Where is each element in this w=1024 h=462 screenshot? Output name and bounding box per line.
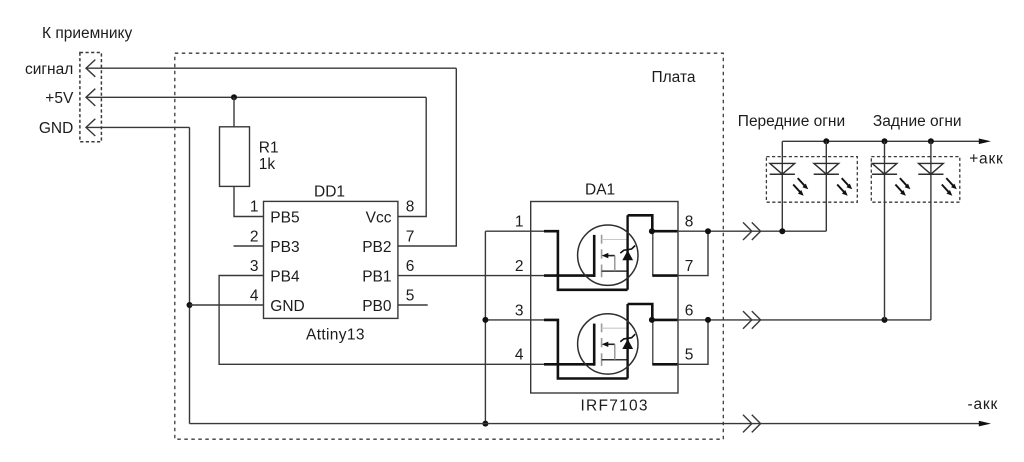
svg-text:PB5: PB5 <box>270 209 299 226</box>
source tap <box>602 270 628 272</box>
junction -акк <box>482 421 488 427</box>
jumper pins 7-8 outside <box>678 231 708 275</box>
connector chevron rear <box>743 311 761 329</box>
wire +5V <box>86 96 426 98</box>
pin arrow +5V <box>86 89 95 106</box>
wire сигнал <box>86 67 456 69</box>
svg-text:PB1: PB1 <box>362 268 391 285</box>
svg-text:5: 5 <box>406 287 415 304</box>
connector chevron front <box>743 222 761 240</box>
svg-text:сигнал: сигнал <box>25 61 73 78</box>
svg-text:3: 3 <box>250 258 259 275</box>
LED HL2 <box>814 163 853 195</box>
svg-text:PB2: PB2 <box>362 239 391 256</box>
front lights dashed box <box>766 157 857 203</box>
IC DD1 box <box>264 201 398 318</box>
wire pin6 to rear lights <box>678 319 931 321</box>
board outline Плата dashed box <box>175 53 724 439</box>
IC DA1 box <box>531 202 678 394</box>
body diode <box>622 250 633 260</box>
body connect <box>614 256 616 272</box>
drain tap <box>602 239 628 241</box>
gate bar <box>593 235 596 277</box>
wire PB0 stub <box>398 304 428 306</box>
svg-text:5: 5 <box>685 347 694 364</box>
light arrow b <box>793 185 800 193</box>
pin arrow GND <box>86 119 95 136</box>
connector X1 dashed box <box>80 53 102 142</box>
svg-text:6: 6 <box>685 302 694 319</box>
wire +акк top line <box>782 140 979 142</box>
transistor M1 (upper half of DA1) <box>544 215 677 289</box>
wire LED3 vertical <box>884 141 886 320</box>
svg-text:8: 8 <box>406 199 415 216</box>
wire +5V to DD1 pin8 Vcc <box>398 97 426 216</box>
svg-text:PB4: PB4 <box>270 268 300 285</box>
svg-text:1: 1 <box>250 199 259 216</box>
junction +5V / R1 <box>231 94 237 100</box>
svg-text:4: 4 <box>250 287 259 304</box>
channel segments <box>601 235 603 277</box>
body arrow <box>607 255 615 257</box>
wire GND to DD1 pin4 <box>190 304 264 306</box>
svg-text:8: 8 <box>685 214 694 231</box>
svg-text:6: 6 <box>406 258 415 275</box>
junction LED4 top <box>928 138 934 144</box>
wire PB1 to DA1 pin2 <box>398 275 546 277</box>
svg-text:DD1: DD1 <box>314 183 345 200</box>
svg-text:GND: GND <box>270 298 304 315</box>
wire LED1 vertical <box>781 141 783 231</box>
LED HL4 <box>918 163 957 195</box>
svg-text:+акк: +акк <box>969 150 1003 167</box>
svg-text:R1: R1 <box>259 139 279 156</box>
svg-text:1: 1 <box>515 214 524 231</box>
svg-text:Передние огни: Передние огни <box>738 113 845 130</box>
wire to DA1 pin1 <box>485 230 546 232</box>
pin7 stub <box>652 274 677 277</box>
source lead pin1 <box>544 231 628 290</box>
svg-text:1k: 1k <box>259 156 276 173</box>
transistor circle <box>578 225 638 285</box>
wire to DA1 pin3 <box>485 319 546 321</box>
gate lead pin2 <box>544 274 594 277</box>
svg-text:3: 3 <box>515 302 524 319</box>
wire -акк bottom line <box>190 423 980 425</box>
svg-text:2: 2 <box>515 258 524 275</box>
arrowhead -акк <box>979 421 991 427</box>
svg-text:PB3: PB3 <box>270 239 299 256</box>
wire PB3 stub <box>234 245 264 247</box>
svg-text:PB0: PB0 <box>362 298 392 315</box>
connector chevron -акк <box>743 415 761 433</box>
svg-text:4: 4 <box>515 347 524 364</box>
diode triangle <box>770 163 795 174</box>
LED HL1 <box>770 163 809 195</box>
drain lead <box>628 215 653 231</box>
svg-text:GND: GND <box>39 120 73 137</box>
pin8 stub <box>652 230 678 233</box>
svg-text:К приемнику: К приемнику <box>42 25 132 42</box>
wire LED2 vertical <box>825 141 827 231</box>
wire GND vertical net <box>189 127 191 423</box>
jumper drain to pin7 <box>652 231 654 275</box>
junction LED1 bottom <box>779 228 785 234</box>
rear lights dashed box <box>871 157 960 203</box>
wire PB4 to DA1 pin4 <box>219 276 546 365</box>
pin arrow сигнал <box>86 60 95 77</box>
svg-text:-акк: -акк <box>968 396 999 413</box>
wire сигнал to DD1 pin7 PB2 <box>398 68 456 246</box>
junction pin6 <box>705 317 711 323</box>
svg-text:7: 7 <box>685 258 694 275</box>
cathode bar <box>770 173 795 175</box>
light arrow a <box>798 178 805 186</box>
svg-text:2: 2 <box>250 228 259 245</box>
svg-text:Attiny13: Attiny13 <box>306 326 365 343</box>
svg-text:Задние огни: Задние огни <box>873 113 962 130</box>
junction LED2 top <box>823 138 829 144</box>
jumper pins 5-6 outside <box>678 320 708 364</box>
svg-text:IRF7103: IRF7103 <box>581 397 649 414</box>
svg-text:Плата: Плата <box>652 69 696 86</box>
wire R1 top <box>233 97 235 127</box>
svg-text:+5V: +5V <box>45 90 74 107</box>
svg-text:Vcc: Vcc <box>366 209 392 226</box>
wire LED4 vertical <box>930 141 932 320</box>
junction pin3 <box>482 317 488 323</box>
svg-text:7: 7 <box>406 228 415 245</box>
wire pin8 to front lights <box>678 230 826 232</box>
junction drain <box>649 228 655 234</box>
arrowhead +акк <box>979 139 991 145</box>
resistor R1 <box>220 127 250 187</box>
junction rear LED3 <box>882 317 888 323</box>
drain-source vertical <box>626 215 628 289</box>
wire R1 bottom to DD1 pin1 <box>234 186 264 216</box>
LED HL3 <box>872 163 911 195</box>
junction LED3 top <box>882 138 888 144</box>
wire GND <box>86 126 190 128</box>
diode cathode bar <box>620 246 635 254</box>
source net vertical (DA1 pins 1,3 to -акк) <box>484 231 486 423</box>
svg-text:DA1: DA1 <box>585 181 615 198</box>
junction pin8 <box>705 228 711 234</box>
transistor M2 (lower half of DA1) <box>544 304 677 379</box>
junction GND / pin4 <box>187 302 193 308</box>
